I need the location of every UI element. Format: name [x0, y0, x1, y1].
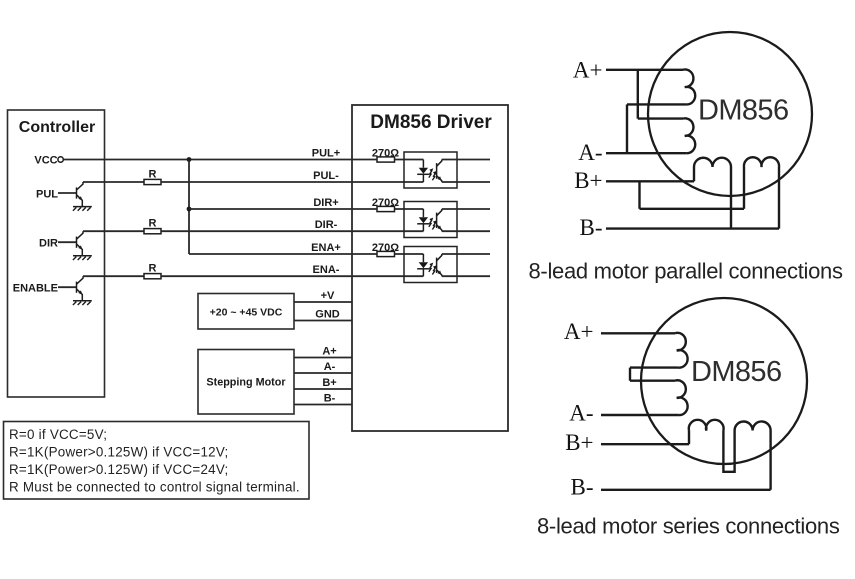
- 270 ohm resistor 1: [377, 157, 395, 162]
- coil B2 (series): [735, 421, 771, 430]
- svg-text:B+: B+: [565, 430, 593, 455]
- wire minus row 2 to LED cathode: [352, 230, 423, 232]
- svg-text:A-: A-: [569, 401, 593, 426]
- wire B+ branch vertical (parallel): [638, 181, 640, 209]
- svg-text:R Must be connected to control: R Must be connected to control signal te…: [9, 480, 300, 495]
- wire VCC to PUL+: [63, 159, 352, 161]
- optocoupler U2 box: [404, 202, 457, 238]
- svg-text:PUL: PUL: [36, 188, 58, 200]
- series link B U-shape: [723, 431, 734, 472]
- transistor Q3 emitter arrow: [78, 290, 82, 294]
- wire B+ riser (series): [688, 431, 690, 445]
- svg-text:Stepping Motor: Stepping Motor: [206, 377, 286, 389]
- opto U1 phototransistor: [436, 163, 438, 179]
- wire DIR base lead: [58, 241, 77, 243]
- wire B+ (parallel): [606, 180, 694, 182]
- svg-text:A-: A-: [324, 361, 336, 373]
- svg-text:PUL-: PUL-: [313, 170, 339, 182]
- svg-text:R=1K(Power>0.125W) if VCC=24V;: R=1K(Power>0.125W) if VCC=24V;: [9, 462, 229, 477]
- resistor R (PUL): [144, 179, 161, 184]
- wire A+ (series): [601, 332, 675, 334]
- opto U2 phototransistor: [436, 213, 438, 228]
- transistor Q1 base bar: [76, 187, 78, 198]
- wire A+ branch vertical (parallel): [637, 70, 639, 119]
- wire coil A1 exit (parallel): [627, 103, 687, 105]
- wire VCC bus to ENA+: [189, 253, 352, 255]
- wire coil B2 right leg (parallel): [778, 167, 780, 229]
- transistor Q3 collector: [77, 276, 84, 284]
- ground of transistor Q3: [73, 300, 92, 302]
- 270 ohm resistor 3: [377, 251, 395, 256]
- svg-text:GND: GND: [315, 309, 340, 321]
- junction dot VCC bus at DIR+: [187, 207, 192, 212]
- svg-text:ENA-: ENA-: [313, 264, 340, 276]
- coil B1 (series): [689, 420, 724, 431]
- wire resistor 3 to LED anode: [395, 253, 424, 255]
- wire opto U2 emitter out: [442, 230, 490, 232]
- opto U1 LED: [422, 160, 424, 168]
- svg-text:ENABLE: ENABLE: [13, 283, 58, 295]
- wire resistor 2 to LED anode: [395, 208, 424, 210]
- power supply box: [198, 294, 294, 330]
- opto U2 light arrows: [429, 220, 432, 227]
- wire R to driver (DIR): [161, 230, 352, 232]
- wire Q2 collector to R: [83, 230, 144, 232]
- opto U3 LED: [422, 254, 424, 262]
- wire VCC bus to DIR+: [189, 208, 352, 210]
- svg-text:8-lead motor parallel connecti: 8-lead motor parallel connections: [529, 259, 843, 284]
- transistor Q1 collector: [77, 182, 84, 190]
- optocoupler U3 box: [404, 247, 457, 283]
- transistor Q2 collector: [77, 231, 84, 239]
- wire Q1 collector to R: [83, 181, 144, 183]
- wire opto U1 collector out: [442, 159, 490, 161]
- svg-text:PUL+: PUL+: [312, 148, 340, 160]
- svg-text:B-: B-: [580, 215, 603, 240]
- wire motor B+: [294, 388, 352, 390]
- coil B2 (parallel): [744, 157, 779, 167]
- opto U3 phototransistor: [436, 258, 438, 273]
- wire minus row 3 to LED cathode: [352, 275, 423, 277]
- wire R to driver (ENABLE): [161, 275, 352, 277]
- parallel motor circle: [648, 32, 812, 196]
- wire opto U3 collector out: [442, 253, 490, 255]
- 270 ohm resistor 2: [377, 206, 395, 211]
- wire coil B2 left leg (parallel): [743, 167, 745, 209]
- wire opto U2 collector out: [442, 208, 490, 210]
- transistor Q3 emitter: [77, 289, 83, 301]
- svg-text:B+: B+: [322, 377, 336, 389]
- note box: [4, 422, 310, 500]
- coil A2 (series): [675, 380, 688, 415]
- wire resistor 1 to LED anode: [395, 159, 424, 161]
- optocoupler U1 box: [404, 152, 457, 188]
- svg-text:+V: +V: [321, 290, 335, 302]
- svg-text:B-: B-: [324, 393, 336, 405]
- wire minus row 1 to LED cathode: [352, 181, 423, 183]
- svg-text:R: R: [149, 263, 157, 275]
- wire plus row 3 into driver: [352, 253, 377, 255]
- coil A1 (series): [675, 333, 688, 368]
- svg-text:B-: B-: [571, 475, 594, 500]
- transistor Q2 base bar: [76, 237, 78, 248]
- svg-text:VCC: VCC: [34, 154, 57, 166]
- wire A1-A2 link vertical (parallel): [626, 104, 628, 153]
- svg-text:A-: A-: [578, 140, 602, 165]
- wire +V: [294, 301, 352, 303]
- wire B+ to coil B1 vertical (parallel): [693, 167, 695, 181]
- transistor Q2 emitter: [77, 244, 83, 256]
- svg-text:DIR-: DIR-: [315, 219, 338, 231]
- opto U3 light arrows: [429, 265, 432, 272]
- wire PUL base lead: [58, 192, 77, 194]
- wire ENABLE base lead: [58, 286, 77, 288]
- transistor Q3 base bar: [76, 282, 78, 293]
- svg-text:A+: A+: [564, 319, 594, 344]
- svg-text:R: R: [149, 169, 157, 181]
- coil A2 (parallel): [683, 118, 695, 153]
- wire B+ branch horizontal (parallel): [640, 208, 745, 210]
- wire B- (series): [601, 489, 771, 491]
- svg-text:A+: A+: [573, 58, 603, 83]
- svg-text:R: R: [149, 218, 157, 230]
- svg-text:B+: B+: [574, 168, 602, 193]
- resistor R (DIR): [144, 229, 161, 234]
- controller box: [8, 110, 105, 397]
- wire motor B-: [294, 404, 352, 406]
- wire plus row 1 into driver: [352, 159, 377, 161]
- svg-text:ENA+: ENA+: [311, 242, 341, 254]
- wire plus row 2 into driver: [352, 208, 377, 210]
- wire B+ (series): [601, 443, 689, 445]
- wire A- (series): [601, 414, 679, 416]
- series link A horizontal: [630, 380, 675, 382]
- ground of transistor Q2: [73, 255, 92, 257]
- resistor R (ENABLE): [144, 274, 161, 279]
- svg-text:A+: A+: [322, 346, 336, 358]
- svg-text:DIR: DIR: [39, 238, 58, 250]
- wire GND: [294, 320, 352, 322]
- wire motor A-: [294, 372, 352, 374]
- terminal VCC open circle: [58, 157, 63, 162]
- svg-text:8-lead motor series connection: 8-lead motor series connections: [537, 514, 840, 539]
- coil B1 (parallel): [694, 158, 731, 167]
- ground of transistor Q1: [73, 206, 92, 208]
- wire Q3 collector to R: [83, 275, 144, 277]
- coil A1 (parallel): [683, 70, 695, 105]
- wire opto U3 emitter out: [442, 275, 490, 277]
- svg-text:Controller: Controller: [19, 119, 95, 136]
- DM856 driver box: [352, 105, 508, 431]
- junction dot VCC bus at PUL+: [187, 157, 192, 162]
- opto U2 LED: [422, 209, 424, 217]
- wire branch to coil A2 (parallel): [638, 117, 683, 119]
- wire A+ (parallel): [606, 69, 683, 71]
- transistor Q1 emitter: [77, 195, 83, 207]
- wire B- (parallel): [606, 227, 779, 229]
- opto U1 light arrows: [429, 170, 432, 177]
- series link A vertical: [629, 368, 631, 381]
- svg-text:DIR+: DIR+: [313, 197, 338, 209]
- svg-text:R=1K(Power>0.125W) if VCC=12V;: R=1K(Power>0.125W) if VCC=12V;: [9, 445, 229, 460]
- svg-text:DM856: DM856: [698, 95, 789, 127]
- wire A- (parallel): [606, 152, 687, 154]
- wire coil B1 right leg (parallel): [730, 167, 732, 229]
- wire opto U1 emitter out: [442, 181, 490, 183]
- wire motor A+: [294, 357, 352, 359]
- svg-text:DM856 Driver: DM856 Driver: [370, 112, 492, 133]
- wire coil A1 exit (series): [630, 366, 679, 368]
- stepping motor box: [198, 350, 294, 415]
- wire coil B2 down leg (series): [769, 431, 771, 490]
- svg-text:R=0 if VCC=5V;: R=0 if VCC=5V;: [9, 427, 107, 442]
- transistor Q2 emitter arrow: [78, 245, 82, 249]
- svg-text:+20 ~ +45 VDC: +20 ~ +45 VDC: [210, 307, 283, 319]
- series motor circle: [641, 298, 807, 464]
- wire VCC bus vertical: [188, 160, 190, 255]
- wire R to driver (PUL): [161, 181, 352, 183]
- transistor Q1 emitter arrow: [78, 196, 82, 200]
- svg-text:DM856: DM856: [691, 356, 782, 388]
